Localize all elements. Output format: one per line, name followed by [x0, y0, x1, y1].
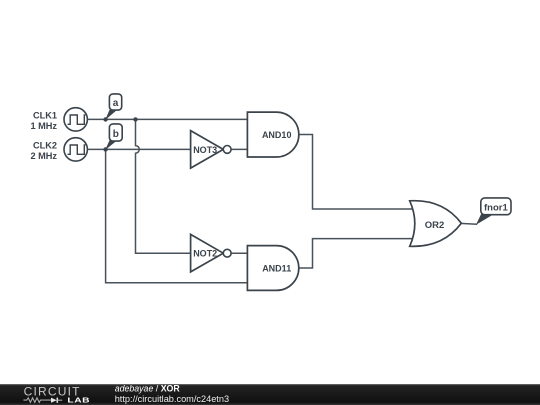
svg-text:2 MHz: 2 MHz [30, 151, 57, 161]
svg-text:LAB: LAB [67, 396, 90, 404]
inverter NOT2 [191, 234, 232, 272]
wire NOT3 output to AND10 bottom input [231, 148, 248, 150]
svg-text:NOT3: NOT3 [193, 145, 217, 155]
svg-text:CLK1: CLK1 [33, 111, 57, 121]
svg-text:a: a [113, 98, 119, 109]
and-gate AND10 [247, 112, 298, 157]
junction dot node a [103, 117, 107, 121]
svg-text:1 MHz: 1 MHz [30, 121, 57, 131]
svg-text:OR2: OR2 [425, 220, 445, 231]
wire CLK2 output to NOT3 input [87, 148, 191, 150]
wire OR2 output to flag fnor1 [460, 222, 477, 225]
svg-text:AND11: AND11 [262, 263, 291, 273]
footer title: adebayae / XOR [115, 384, 181, 394]
clock source CLK2 [30, 138, 87, 161]
svg-text:AND10: AND10 [262, 130, 292, 140]
CircuitLab logo wordmark LAB [67, 396, 90, 404]
svg-text:b: b [113, 129, 119, 140]
svg-text:NOT2: NOT2 [193, 249, 217, 259]
wire node a vertical down to NOT2 input (with hop over CLK2 wire) [136, 119, 192, 253]
wire CLK1 output to AND10 top input [87, 118, 247, 120]
footer url [115, 394, 229, 404]
wire node b vertical down to AND11 bottom input [106, 149, 248, 282]
flag fnor1 [476, 198, 511, 225]
node label b [105, 124, 122, 150]
CircuitLab logo resistor + diode glyph [23, 398, 62, 403]
footer bar [0, 384, 540, 405]
wire AND10 output to OR2 top input [299, 135, 418, 210]
svg-text:http://circuitlab.com/c24etn3: http://circuitlab.com/c24etn3 [115, 394, 229, 404]
junction dot at wire branch to NOT2 [133, 117, 137, 121]
or-gate OR2 [410, 201, 462, 247]
clock source CLK1 [30, 108, 87, 131]
svg-text:CLK2: CLK2 [33, 141, 57, 151]
and-gate AND11 [247, 246, 298, 291]
node label a [105, 94, 122, 120]
CircuitLab logo wordmark CIRCUIT [24, 385, 81, 399]
wire AND11 output to OR2 bottom input [299, 239, 418, 268]
wire NOT2 output to AND11 top input [231, 252, 248, 254]
svg-text:adebayae / XOR: adebayae / XOR [115, 384, 181, 394]
junction dot node b [103, 147, 107, 151]
svg-text:fnor1: fnor1 [484, 202, 508, 213]
inverter NOT3 [191, 131, 232, 169]
